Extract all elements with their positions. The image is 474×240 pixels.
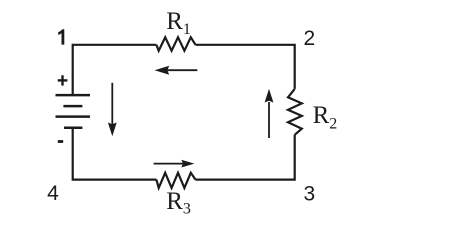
battery plate long top (+) bbox=[56, 94, 91, 97]
current arrow right (above R3) bbox=[154, 160, 195, 168]
resistor R1 bbox=[156, 37, 195, 50]
current arrow up (beside R2) bbox=[265, 89, 274, 138]
wire top-left from node 1 to R1 bbox=[73, 45, 157, 95]
current arrow down (beside battery) bbox=[108, 83, 117, 136]
wire bottom-left from R3 to node 4 up to battery bbox=[73, 128, 157, 180]
battery plate short bottom (-) bbox=[64, 126, 82, 129]
wire right-bottom from R2 to node 3 to R3 bbox=[196, 135, 295, 180]
wire top-right from R1 to node 2 down to R2 bbox=[196, 45, 295, 89]
resistor R2 bbox=[288, 89, 302, 135]
svg-text:3: 3 bbox=[303, 182, 315, 205]
current arrow left (under R1) bbox=[155, 66, 198, 75]
battery plate long bbox=[56, 115, 91, 118]
battery minus sign bbox=[58, 140, 63, 143]
battery plate short bbox=[63, 105, 82, 108]
node 1 label bbox=[58, 29, 64, 44]
svg-text:2: 2 bbox=[304, 27, 316, 50]
battery plus sign bbox=[58, 75, 68, 85]
resistor R3 bbox=[156, 173, 195, 188]
svg-text:4: 4 bbox=[47, 182, 59, 205]
